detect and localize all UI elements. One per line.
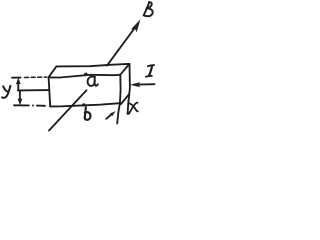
label x	[129, 103, 138, 114]
wire: right face back edge with x-extension below	[128, 64, 130, 114]
label B	[144, 2, 153, 16]
wire: right face top edge	[120, 64, 129, 75]
wire: top face back edge	[57, 64, 130, 67]
wire: B field line lower segment	[49, 90, 87, 130]
label y	[2, 86, 10, 98]
wire: front face top edge	[49, 75, 121, 78]
arrowhead of B	[131, 19, 141, 32]
node b dot	[82, 103, 85, 106]
wire: front face left edge	[49, 77, 51, 106]
label a	[88, 77, 98, 86]
label I	[146, 65, 154, 77]
wire: B field line upper segment	[107, 26, 136, 65]
wire: front face right edge with x-extension below	[117, 75, 120, 124]
wire: front face bottom edge	[50, 103, 120, 106]
y dimension top extension line (solid then dashed)	[12, 77, 21, 79]
wire: right face bottom edge	[121, 94, 129, 104]
arrow I (current) pointing left	[138, 83, 155, 85]
y dimension up arrow	[17, 82, 19, 91]
wire: top face left edge	[49, 66, 57, 77]
y dimension middle line	[18, 89, 50, 91]
arrow for x dimension	[106, 114, 112, 119]
y dimension down arrow	[19, 90, 21, 99]
node a dot	[84, 73, 87, 76]
y dimension bottom dash-dot extension line	[14, 104, 29, 106]
label b	[85, 107, 91, 120]
